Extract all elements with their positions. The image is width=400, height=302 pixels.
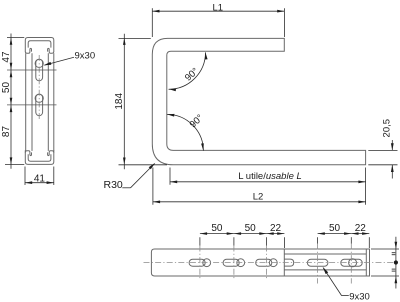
upper 90 degree angle arc: [169, 52, 208, 91]
svg-text:50: 50: [329, 223, 341, 234]
dimension 20,5 (right): [368, 119, 397, 179]
plan view: slot vertical centerlines: [200, 244, 351, 284]
front view: channel bottom end profile: [25, 150, 54, 164]
svg-text:L utile/usable L: L utile/usable L: [238, 171, 302, 182]
dimension 22 (plan, second): [351, 223, 369, 235]
dimension L utile / usable L: [170, 168, 366, 205]
svg-text:41: 41: [34, 173, 46, 184]
dimension 50 (plan, third): [318, 223, 352, 235]
plan view: end edge of upper arm: [283, 249, 285, 276]
dimension 41 (bottom of front view): [25, 167, 54, 186]
svg-text:22: 22: [355, 223, 367, 234]
front view: slot 2 (9x30): [35, 94, 43, 116]
front view: slot 2 horizontal centerline / ext line: [7, 104, 57, 106]
front view: slot 1 (9x30): [35, 59, 43, 81]
dimension 47 (left): [1, 34, 12, 71]
plan view: partial slot at arm end: [284, 259, 293, 266]
plan view: lip edges of lower arm: [284, 249, 366, 276]
plan view: arm outline: [151, 249, 369, 276]
plan view: slot 2 (9x30): [223, 259, 245, 267]
svg-text:90°: 90°: [188, 112, 206, 130]
dimension 50 (plan, second): [234, 223, 267, 235]
svg-text:50: 50: [211, 223, 223, 234]
svg-text:22: 22: [270, 223, 282, 234]
label R30 with leader: [104, 163, 156, 191]
dimension 50 (left): [1, 70, 12, 105]
dimension L2 (bottom of side view): [153, 168, 366, 205]
plan view: slot 3 (9x30): [256, 259, 277, 267]
svg-text:184: 184: [114, 93, 125, 110]
side view: bracket outline: [152, 38, 365, 164]
lower 90 degree angle arc: [167, 112, 206, 150]
svg-text:L1: L1: [213, 2, 224, 13]
dimension 87 (left): [1, 105, 12, 169]
plan view: slot 1 (9x30): [189, 259, 211, 267]
svg-text:47: 47: [1, 51, 12, 63]
dimension 50 (plan, first): [200, 223, 234, 235]
svg-text:9x30: 9x30: [75, 50, 96, 61]
front view: vertical slot centerline: [38, 55, 40, 120]
svg-text:90°: 90°: [183, 66, 201, 84]
svg-text:50: 50: [1, 82, 12, 94]
svg-text:R30: R30: [104, 179, 123, 191]
svg-text:20,5: 20,5: [382, 119, 393, 138]
plan view: horizontal centerline: [144, 262, 395, 264]
svg-text:87: 87: [1, 126, 12, 138]
svg-text:9x30: 9x30: [349, 292, 370, 302]
plan view dimension row: extension lines: [200, 237, 369, 248]
dimension 184 (left of side view): [114, 34, 167, 170]
front view: slot 1 horizontal centerline / ext line: [7, 69, 57, 71]
front view: channel body side edges: [26, 53, 54, 151]
label 9x30 with leader (front view): [43, 50, 95, 65]
front view: bottom extension line: [5, 164, 24, 166]
front view: channel top end profile: [25, 38, 54, 54]
front view: top extension line: [7, 37, 24, 39]
plan view: slot 4 (9x30): [307, 259, 328, 266]
dimension L1 (top): [152, 2, 284, 37]
dimension 22 (plan, first): [267, 223, 285, 235]
plan view: right centering dimension (equal marks): [371, 237, 399, 289]
plan view: slot 5 (9x30): [341, 259, 362, 267]
svg-text:50: 50: [245, 223, 257, 234]
label 9x30 with leader (plan view): [323, 267, 370, 302]
svg-text:L2: L2: [253, 191, 264, 202]
